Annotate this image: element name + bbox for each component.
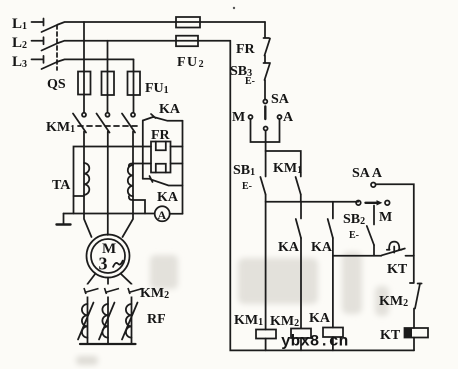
- svg-text:M: M: [232, 110, 245, 125]
- svg-text:SA: SA: [271, 92, 290, 107]
- svg-text:L1: L1: [12, 16, 27, 32]
- svg-text:3: 3: [99, 254, 108, 274]
- svg-text:KA: KA: [311, 240, 333, 255]
- svg-text:KM1: KM1: [234, 313, 263, 328]
- svg-text:L2: L2: [12, 35, 27, 51]
- svg-text:FU2: FU2: [177, 55, 205, 70]
- svg-text:FU1: FU1: [145, 81, 169, 96]
- svg-text:A: A: [158, 208, 167, 222]
- svg-text:KM2: KM2: [270, 314, 299, 329]
- svg-text:FR: FR: [151, 128, 171, 143]
- svg-text:TA: TA: [52, 178, 71, 193]
- svg-text:M: M: [379, 210, 392, 225]
- svg-text:L3: L3: [12, 54, 27, 70]
- svg-text:ybx8.cn: ybx8.cn: [281, 333, 348, 351]
- svg-text:KT: KT: [380, 328, 401, 343]
- svg-text:KM1: KM1: [46, 120, 75, 135]
- svg-text:KA: KA: [278, 240, 300, 255]
- svg-text:FR: FR: [236, 42, 256, 57]
- svg-text:KA: KA: [309, 311, 331, 326]
- svg-text:KM2: KM2: [379, 294, 408, 309]
- svg-text:QS: QS: [47, 77, 66, 92]
- svg-text:KM1: KM1: [273, 161, 302, 176]
- svg-text:E-: E-: [242, 181, 252, 192]
- svg-text:A: A: [283, 110, 294, 125]
- svg-text:E-: E-: [245, 76, 255, 87]
- svg-text:SA A: SA A: [352, 166, 383, 181]
- svg-text:SB1: SB1: [233, 163, 255, 178]
- svg-text:KT: KT: [387, 262, 408, 277]
- svg-text:RF: RF: [147, 312, 166, 327]
- svg-text:E-: E-: [349, 230, 359, 241]
- svg-text:SB2: SB2: [343, 212, 365, 227]
- svg-text:KA: KA: [157, 190, 179, 205]
- svg-text:KA: KA: [159, 102, 181, 117]
